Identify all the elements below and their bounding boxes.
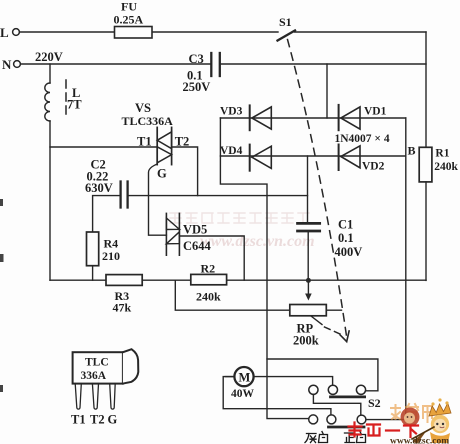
svg-text:M: M (239, 371, 251, 385)
wire B vertical (366, 118, 406, 420)
svg-text:T1: T1 (71, 413, 86, 427)
svg-text:40W: 40W (231, 388, 255, 400)
wire N drop to inductor (49, 64, 51, 83)
wire gate rail long (128, 195, 308, 197)
svg-text:200k: 200k (293, 334, 319, 348)
wire motor right terminal (254, 377, 333, 386)
wire gate (149, 164, 167, 235)
wire C2 left to R4 (93, 196, 120, 232)
svg-text:VD3: VD3 (220, 106, 243, 118)
svg-text:VD4: VD4 (220, 145, 243, 157)
resistor R3 47k (106, 275, 142, 315)
svg-text:N: N (2, 57, 12, 72)
svg-text:240k: 240k (434, 161, 458, 173)
wire diac out (179, 236, 244, 280)
wire bridge top rail (220, 117, 405, 119)
wire RP drop (175, 280, 289, 310)
inductor L 7T (45, 80, 82, 121)
dashed wiper link (325, 327, 342, 335)
resistor R4 210 (87, 232, 121, 266)
svg-text:630V: 630V (85, 181, 113, 195)
scan edge artifacts (0, 199, 4, 392)
svg-text:C644: C644 (183, 239, 212, 253)
wire row1 pole to row2 (313, 394, 360, 415)
wire T1 horizontal (50, 146, 157, 148)
TLC336A package (71, 349, 138, 426)
svg-text:VD1: VD1 (364, 106, 387, 118)
wire T2 down (172, 147, 198, 196)
svg-text:FU: FU (121, 0, 137, 14)
dashed link arrowhead (340, 331, 349, 342)
switch S1 (278, 15, 296, 41)
svg-text:1N4007 × 4: 1N4007 × 4 (335, 133, 390, 145)
wire N rail left (21, 63, 212, 65)
svg-text:VS: VS (135, 101, 151, 115)
svg-text:G: G (108, 413, 118, 427)
wiper arrow to RP (305, 283, 312, 301)
svg-text:400V: 400V (335, 245, 363, 259)
wire bottom rail A (50, 279, 426, 281)
wire N drop to bridge (326, 64, 328, 118)
svg-text:S1: S1 (279, 15, 292, 29)
watermark weiku text (349, 423, 419, 438)
diode VD1 (339, 105, 387, 130)
diode VD4 (220, 145, 271, 171)
svg-text:L: L (0, 25, 9, 40)
switch S2 contact row2 (309, 415, 366, 427)
svg-text:7T: 7T (67, 98, 82, 112)
svg-text:S2: S2 (368, 396, 381, 410)
watermark mascots (401, 398, 452, 444)
wire motor left terminal (223, 377, 331, 415)
label fan-xiang (305, 432, 328, 443)
svg-text:T2: T2 (90, 413, 105, 427)
svg-text:R1: R1 (435, 148, 449, 160)
resistor R1 240k (419, 147, 458, 182)
watermark zhaoxinpian text (391, 404, 432, 422)
svg-text:G: G (157, 167, 167, 181)
wire R4 bottom (92, 266, 94, 281)
terminal N (2, 57, 20, 72)
svg-text:www.dzsc.com: www.dzsc.com (390, 437, 449, 444)
wire left vertical (49, 121, 51, 280)
dashed link S1 to RP (288, 40, 347, 337)
svg-text:250V: 250V (183, 80, 211, 94)
capacitor C1 0.1 400V (298, 156, 363, 278)
svg-text:T1: T1 (137, 135, 152, 149)
wire L rail right (295, 31, 427, 33)
wire L rail left (20, 31, 279, 33)
watermark center line1 (170, 213, 309, 223)
terminal L (0, 25, 19, 40)
svg-text:TLC336A: TLC336A (122, 114, 174, 128)
resistor R2 240k (191, 262, 227, 304)
wire S2 upper feed (267, 359, 378, 391)
svg-text:VD5: VD5 (183, 223, 207, 237)
wire right edge vertical top (425, 32, 427, 147)
svg-text:0.25A: 0.25A (114, 13, 144, 27)
svg-text:336A: 336A (81, 370, 107, 382)
diode VD3 (220, 105, 271, 130)
potentiometer RP 200k (290, 305, 342, 348)
wire right edge vertical bottom (425, 182, 427, 281)
triac VS TLC336A (122, 101, 190, 181)
capacitor C2 0.22 630V (85, 158, 128, 208)
svg-text:B: B (408, 144, 416, 158)
svg-text:210: 210 (102, 249, 120, 263)
wire motor stub left (225, 376, 234, 378)
capacitor C3 0.1 250V (183, 52, 220, 94)
switch S2 contact row1 (309, 385, 366, 397)
svg-text:240k: 240k (196, 290, 221, 304)
fuse FU 0.25A (114, 0, 153, 38)
wire N rail right (220, 63, 426, 65)
motor M 40W (231, 367, 255, 400)
svg-text:R2: R2 (201, 262, 216, 276)
svg-text:220V: 220V (35, 50, 63, 64)
junction dot C1 (306, 278, 311, 283)
svg-text:47k: 47k (113, 301, 132, 315)
label zheng-xiang (345, 432, 366, 443)
svg-text:0.1: 0.1 (338, 231, 354, 245)
svg-text:C3: C3 (189, 52, 204, 66)
wire bridge bottom rail (220, 155, 405, 157)
diac VD5 C644 (166, 213, 211, 255)
diode VD2 (339, 145, 385, 173)
bridge left vertical (220, 118, 308, 419)
svg-text:C1: C1 (338, 218, 353, 232)
svg-text:TLC: TLC (85, 357, 109, 369)
svg-text:VD2: VD2 (362, 161, 385, 173)
